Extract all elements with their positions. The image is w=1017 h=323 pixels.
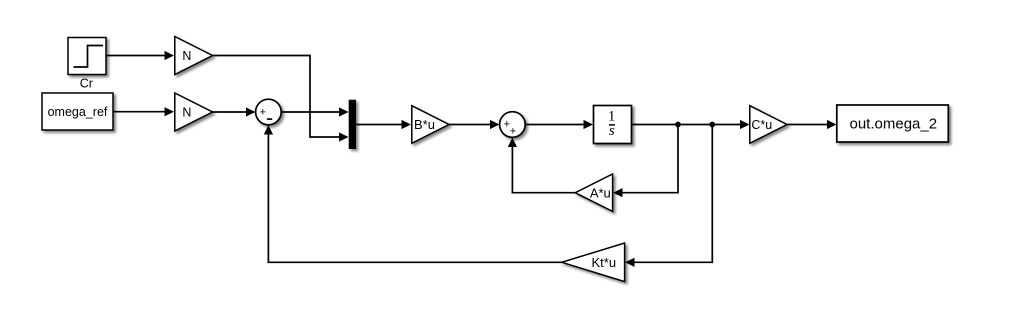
source block omega_ref bbox=[42, 93, 113, 130]
wire gain B*u to sum2 bbox=[449, 124, 491, 126]
gain B*u bbox=[412, 106, 449, 144]
output block out.omega_2 bbox=[837, 105, 949, 142]
wire sum1 to mux upper input bbox=[281, 111, 340, 113]
wire omega_ref to N2 bbox=[114, 111, 166, 113]
arrowhead into sum2 bbox=[490, 120, 500, 129]
arrowhead into mux upper input bbox=[339, 107, 349, 116]
svg-text:1: 1 bbox=[608, 108, 616, 124]
arrowhead into integrator bbox=[584, 120, 594, 129]
wire N2 to sum1 bbox=[213, 111, 248, 113]
junction node dot2 bbox=[709, 122, 715, 128]
gain N1 bbox=[175, 37, 213, 75]
wire sum2 to integrator bbox=[525, 124, 584, 126]
integrator fraction bar bbox=[609, 124, 615, 126]
gain N2 bbox=[175, 93, 213, 131]
wire node dot1 down to gain A*u bbox=[622, 125, 678, 193]
arrowhead into gain Kt*u bbox=[625, 258, 635, 267]
arrowhead into sum1 bottom bbox=[264, 125, 273, 135]
step source Cr bbox=[68, 38, 106, 75]
wire node dot2 down to gain Kt*u bbox=[634, 125, 712, 263]
gain C*u bbox=[750, 106, 787, 144]
svg-text:B*u: B*u bbox=[414, 117, 435, 132]
sum junction sum1 bbox=[256, 99, 282, 125]
wire integrator to gain C*u bbox=[632, 124, 741, 126]
svg-text:out.omega_2: out.omega_2 bbox=[850, 116, 938, 133]
svg-text:omega_ref: omega_ref bbox=[48, 105, 108, 119]
sum junction sum2 bbox=[500, 112, 526, 138]
svg-text:s: s bbox=[609, 123, 615, 139]
integrator 1/s bbox=[594, 106, 632, 144]
wire gain Kt*u to sum1 bottom input bbox=[268, 134, 561, 262]
gain Kt*u (left pointing, wide) bbox=[562, 243, 625, 282]
svg-text:N: N bbox=[182, 49, 191, 63]
svg-text:+: + bbox=[510, 125, 516, 137]
wire gain A*u to sum2 bottom input bbox=[512, 147, 575, 193]
wire N1 to mux lower input bbox=[213, 56, 340, 138]
svg-text:+: + bbox=[260, 107, 266, 119]
mux bbox=[349, 100, 356, 149]
arrowhead into sum1 bbox=[246, 107, 256, 116]
gain A*u (left pointing) bbox=[575, 174, 612, 211]
arrowhead into N1 bbox=[165, 51, 175, 60]
svg-text:Kt*u: Kt*u bbox=[592, 255, 617, 270]
arrowhead into gain B*u bbox=[402, 120, 412, 129]
svg-text:A*u: A*u bbox=[590, 185, 611, 200]
svg-text:N: N bbox=[182, 106, 191, 120]
wire mux to gain B*u bbox=[356, 124, 403, 126]
junction node dot1 bbox=[675, 122, 681, 128]
arrowhead into N2 bbox=[165, 107, 175, 116]
sum1 sign minus (bottom input) bbox=[267, 118, 272, 120]
arrowhead into gain C*u bbox=[740, 120, 750, 129]
arrowhead into out block bbox=[827, 120, 837, 129]
svg-text:C*u: C*u bbox=[751, 118, 772, 132]
arrowhead into mux lower input bbox=[339, 132, 349, 141]
wire gain C*u to out block bbox=[787, 124, 828, 126]
arrowhead into gain A*u bbox=[613, 188, 623, 197]
arrowhead into sum2 bottom bbox=[508, 138, 517, 148]
wire Cr to N1 bbox=[107, 55, 166, 57]
svg-text:Cr: Cr bbox=[80, 77, 93, 91]
